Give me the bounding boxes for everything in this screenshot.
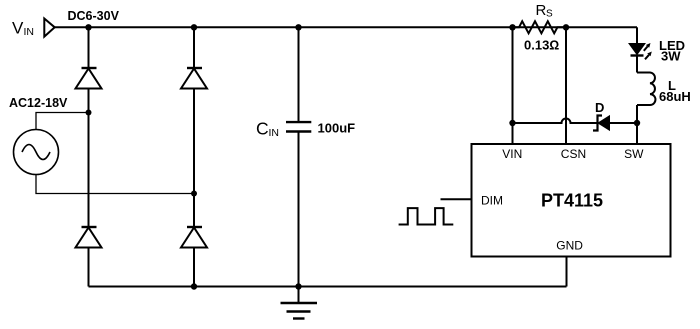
svg-text:D: D [595, 100, 604, 115]
svg-text:DC6-30V: DC6-30V [68, 9, 120, 23]
diode bridge bottom-right [187, 226, 202, 228]
svg-text:3W: 3W [661, 48, 681, 63]
wire capacitor bottom lead [298, 132, 300, 287]
wire left bridge leg lower [88, 248, 90, 287]
node top rail / left bridge leg [85, 24, 91, 30]
wire right bridge leg upper [193, 27, 195, 68]
svg-text:GND: GND [556, 238, 583, 252]
AC source V1 [14, 130, 59, 175]
svg-text:CSN: CSN [561, 147, 586, 161]
ground [298, 287, 300, 304]
capacitor Cin [286, 121, 311, 123]
diode bridge top-left [82, 67, 97, 69]
wire GND pin drop [566, 257, 568, 287]
node AC top / left leg [86, 110, 92, 116]
node Vin/diode wire [509, 120, 515, 126]
wire DIM lead [441, 198, 472, 200]
svg-text:PT4115: PT4115 [541, 191, 603, 211]
wire diode to SW node [610, 122, 638, 124]
node SW/diode wire [634, 120, 640, 126]
svg-text:DIM: DIM [481, 194, 503, 208]
wire bottom rail [89, 286, 567, 288]
wire left bridge leg middle [88, 89, 90, 228]
wire right bridge leg lower [193, 248, 195, 287]
node AC bottom / right leg [191, 191, 197, 197]
node bottom rail / right bridge leg [191, 283, 197, 289]
node top rail / resistor left [509, 24, 515, 30]
wire AC bottom lead [36, 175, 194, 194]
wire top rail [55, 26, 637, 28]
wire left bridge leg upper [88, 27, 90, 68]
wire inductor to SW node [636, 105, 638, 123]
svg-text:SW: SW [624, 147, 644, 161]
svg-text:R: R [536, 2, 547, 19]
LED [629, 44, 645, 55]
svg-text:IN: IN [269, 127, 280, 139]
svg-text:100uF: 100uF [318, 120, 356, 135]
diode bridge bottom-left [82, 226, 97, 228]
resistor Rs [513, 21, 567, 33]
wire CSN pin drop [565, 27, 567, 144]
node bottom rail / capacitor / ground [295, 283, 301, 289]
svg-text:AC12-18V: AC12-18V [9, 96, 68, 110]
node top rail / capacitor [295, 24, 301, 30]
wire diode net with hop over CSN [513, 119, 599, 124]
wire SW pin drop [636, 123, 638, 144]
svg-text:S: S [546, 9, 553, 20]
diode D (schottky) [593, 116, 602, 131]
svg-text:V: V [12, 18, 24, 37]
svg-text:68uH: 68uH [659, 89, 691, 104]
diode bridge top-right [187, 67, 202, 69]
wire AC top lead [36, 113, 89, 130]
svg-text:C: C [256, 119, 269, 139]
node top rail / resistor right [563, 24, 569, 30]
inductor L [637, 73, 655, 106]
IC U1 PT4115 box [472, 144, 671, 257]
wire top rail right corner down to LED [636, 27, 638, 43]
node top rail / right bridge leg [191, 24, 197, 30]
wire capacitor top lead [298, 27, 300, 122]
svg-text:IN: IN [24, 26, 35, 38]
svg-text:0.13Ω: 0.13Ω [524, 38, 559, 53]
svg-text:VIN: VIN [502, 147, 522, 161]
wire LED to inductor [636, 56, 638, 73]
PWM square wave symbol [399, 208, 454, 224]
wire Vin pin drop [512, 27, 514, 144]
wire right bridge leg middle [193, 89, 195, 228]
Vin terminal triangle [44, 19, 54, 37]
